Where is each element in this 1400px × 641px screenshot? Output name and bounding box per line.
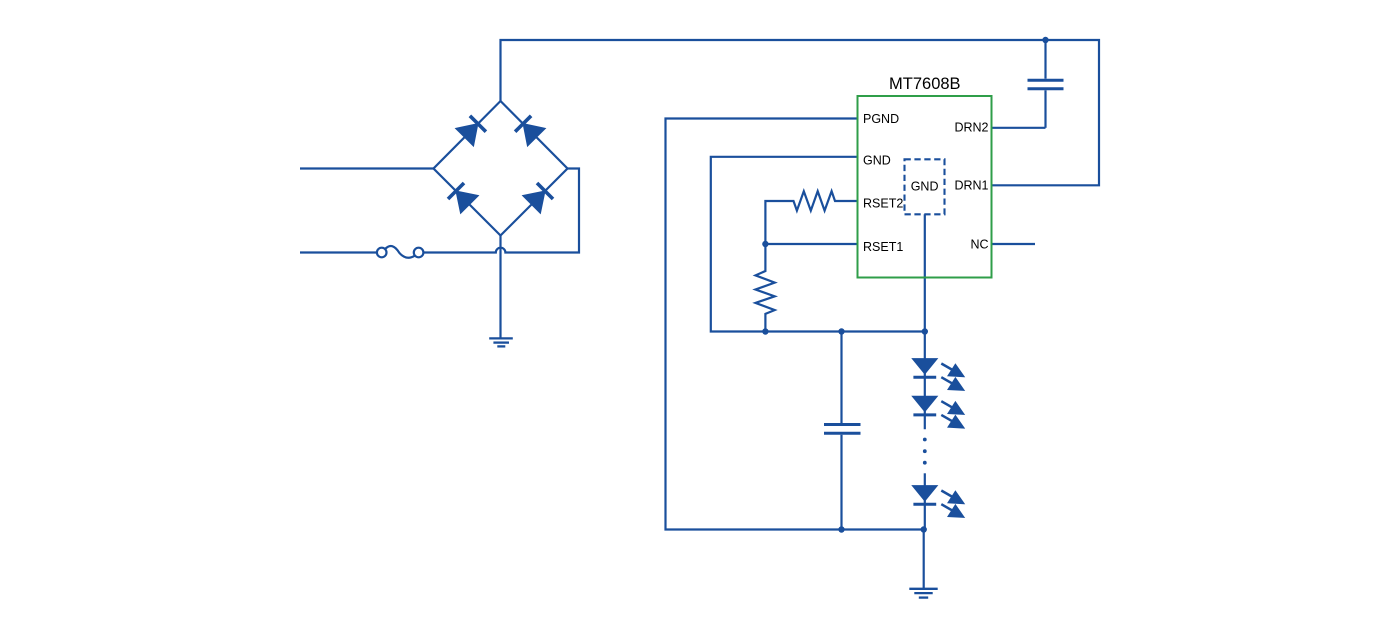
svg-text:GND: GND <box>911 180 939 194</box>
svg-text:DRN2: DRN2 <box>954 120 988 134</box>
node RSET junction <box>762 241 768 247</box>
wire internal GND to net <box>924 214 926 331</box>
node C2 bottom junction <box>838 526 844 532</box>
svg-text:MT7608B: MT7608B <box>889 75 961 93</box>
capacitor C1 <box>992 40 1064 128</box>
wire AC line 1 <box>300 167 434 169</box>
wire AC line 2 with hop <box>423 169 579 253</box>
wire LED chain lower <box>924 473 926 529</box>
node C2 top junction <box>838 328 844 334</box>
node R1 bottom junction <box>762 328 768 334</box>
wire bridge negative to ground <box>499 236 501 339</box>
svg-text:NC: NC <box>970 238 988 252</box>
internal GND dashed box <box>905 159 945 214</box>
svg-text:RSET2: RSET2 <box>863 197 903 211</box>
svg-text:PGND: PGND <box>863 112 899 126</box>
node VOUT junction <box>1042 37 1048 43</box>
diode D2 bridge top-right <box>515 116 545 146</box>
node LED bottom junction <box>921 526 927 532</box>
LED D6 <box>912 396 964 428</box>
ground LED string <box>909 589 937 598</box>
wire LED chain <box>924 332 926 430</box>
capacitor C2 <box>824 332 861 530</box>
wire LED to ground <box>923 530 925 589</box>
ellipsis dots LED chain <box>923 438 927 465</box>
wire GND net <box>711 157 925 332</box>
IC U1 MT7608B box <box>858 96 992 278</box>
resistor R1 (RSET1) <box>756 244 775 332</box>
diode D4 bridge bottom-right <box>523 183 553 213</box>
diode D1 bridge top-left <box>456 116 486 146</box>
resistor R2 (RSET2) <box>765 191 857 244</box>
svg-text:GND: GND <box>863 154 891 168</box>
bridge rectifier BR1 diamond <box>434 101 568 236</box>
node LED top junction <box>922 328 928 334</box>
diode D3 bridge bottom-left <box>448 183 478 213</box>
wire NC stub <box>992 243 1035 245</box>
fuse F1 <box>300 246 423 258</box>
wire PGND net <box>666 119 924 530</box>
wire RSET1 <box>765 243 857 245</box>
LED D5 <box>912 359 964 391</box>
ground bridge <box>489 338 513 346</box>
LED D7 <box>912 486 964 518</box>
svg-text:DRN1: DRN1 <box>954 179 988 193</box>
svg-text:RSET1: RSET1 <box>863 240 903 254</box>
wire top bus <box>501 40 1100 185</box>
